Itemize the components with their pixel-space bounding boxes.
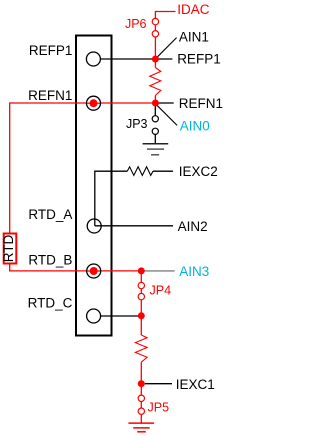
svg-text:JP6: JP6 — [125, 17, 147, 31]
svg-text:REFP1: REFP1 — [29, 43, 73, 58]
svg-text:JP4: JP4 — [150, 284, 172, 298]
svg-text:RTD: RTD — [1, 235, 16, 263]
svg-text:REFN1: REFN1 — [28, 88, 72, 103]
svg-text:RTD_C: RTD_C — [28, 296, 73, 311]
svg-text:AIN3: AIN3 — [179, 264, 209, 279]
svg-text:IEXC1: IEXC1 — [176, 377, 215, 392]
svg-text:RTD_A: RTD_A — [28, 207, 72, 222]
svg-text:RTD_B: RTD_B — [28, 253, 72, 268]
svg-text:REFP1: REFP1 — [177, 51, 221, 66]
svg-text:REFN1: REFN1 — [179, 96, 223, 111]
svg-text:IEXC2: IEXC2 — [179, 164, 218, 179]
svg-text:AIN2: AIN2 — [178, 219, 208, 234]
svg-text:AIN1: AIN1 — [179, 29, 209, 44]
svg-text:IDAC: IDAC — [177, 2, 210, 17]
svg-text:JP3: JP3 — [126, 117, 148, 131]
svg-text:AIN0: AIN0 — [180, 119, 210, 134]
svg-text:JP5: JP5 — [148, 401, 170, 415]
